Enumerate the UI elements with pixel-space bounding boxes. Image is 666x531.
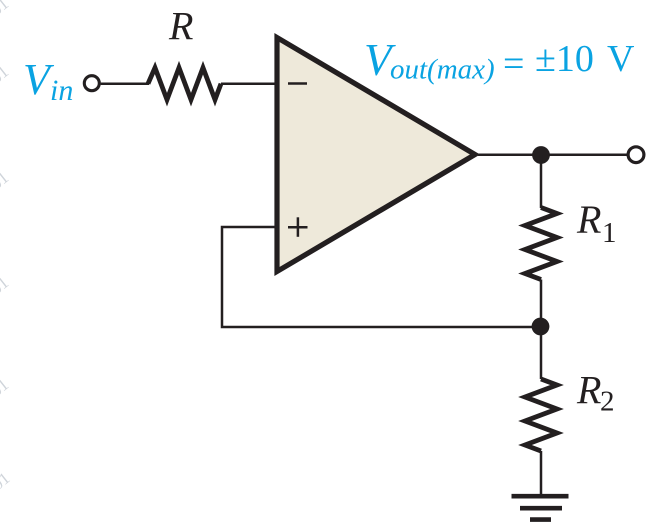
feedback wire to plus input [222,227,541,327]
resistor R [148,68,221,100]
output terminal (open circle) [628,147,644,163]
wire: R1 to feedback junction [540,280,543,328]
wire: junction down to R2 [540,327,543,379]
ground [512,496,569,519]
op-amp U1 (comparator triangle) [277,38,475,272]
wire: op-amp output to terminal [478,153,627,156]
op-amp minus pin mark [288,82,307,84]
wire: R to op-amp inverting input [221,82,277,85]
svg-text:1: 1 [602,217,617,249]
svg-text:R: R [576,368,601,413]
output junction node [532,146,550,164]
svg-text:±10: ±10 [535,38,594,80]
svg-text:out(max): out(max) [390,54,495,86]
wire: terminal to R [101,82,149,85]
wire: junction down to R1 [540,155,543,208]
svg-text:R: R [576,197,601,242]
svg-text:2: 2 [600,386,615,418]
svg-text:R: R [168,4,193,49]
input terminal (open circle) [84,76,99,91]
resistor R1 [525,208,557,280]
op-amp plus pin mark [288,217,308,237]
svg-text:in: in [50,74,73,107]
svg-text:=: = [503,43,524,85]
wire: R2 to ground [540,451,543,496]
feedback junction node [532,318,550,336]
resistor R2 [525,379,557,451]
svg-text:V: V [607,38,635,80]
